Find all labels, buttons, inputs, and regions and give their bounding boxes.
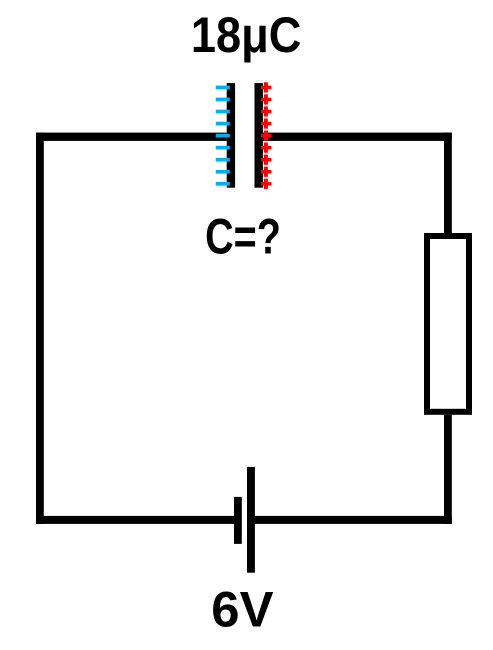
- capacitor C: right plate: [255, 83, 263, 188]
- capacitor C: left plate: [227, 83, 235, 188]
- wire: top horizontal, right segment (capacitor right plate to resistor): [263, 133, 452, 141]
- resistor R (box symbol): [427, 236, 469, 412]
- svg-text:6V: 6V: [211, 581, 274, 637]
- wire: top horizontal, left segment (node between battery + and capacitor left plate): [36, 133, 227, 141]
- battery V1: long (positive) plate: [247, 467, 255, 573]
- battery V1: short (negative) plate: [234, 497, 242, 544]
- capacitor positive charge marks (red plus signs): [261, 82, 272, 189]
- wire: left vertical segment: [36, 133, 44, 524]
- wire: right vertical lower segment (resistor bottom to bottom wire): [444, 415, 452, 524]
- capacitor negative charge marks (blue minus signs): [216, 86, 230, 186]
- wire: bottom horizontal, left segment (to battery short plate): [36, 516, 234, 524]
- svg-text:18μC: 18μC: [191, 7, 302, 63]
- wire: bottom horizontal, right segment (battery long plate to right corner): [255, 516, 452, 524]
- svg-text:C=?: C=?: [205, 208, 281, 264]
- wire: right vertical upper segment (to resistor top): [444, 133, 452, 233]
